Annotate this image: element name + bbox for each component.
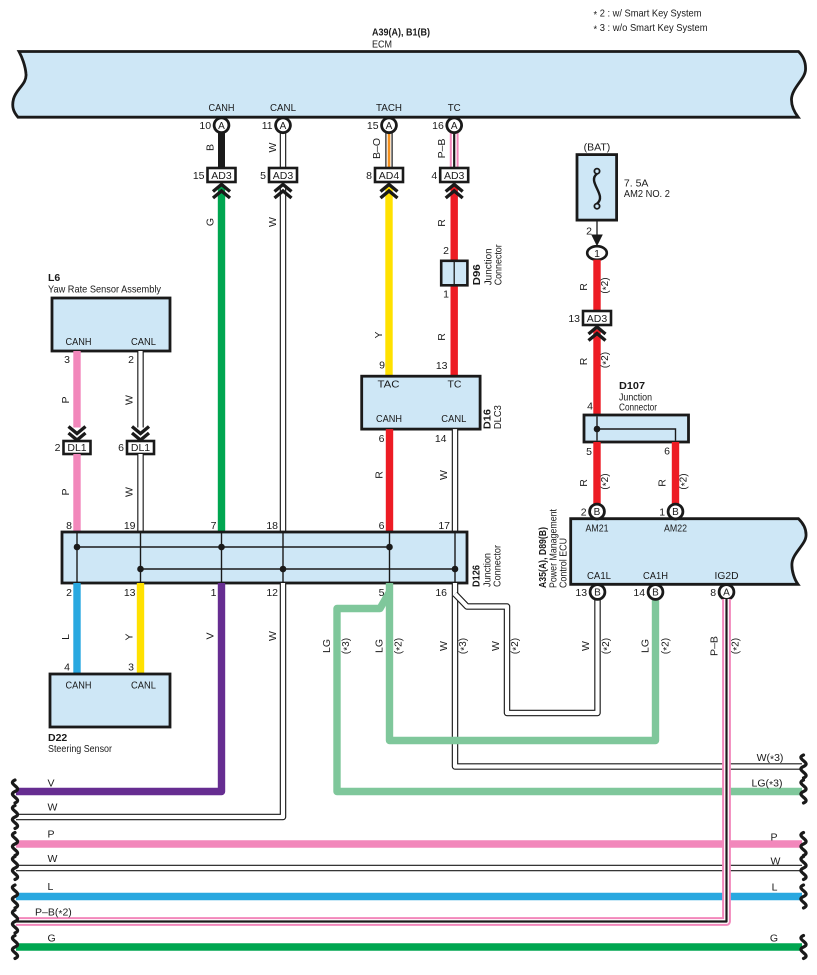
svg-text:A: A <box>723 588 730 599</box>
svg-text:TC: TC <box>448 102 461 114</box>
svg-text:A: A <box>280 121 287 132</box>
svg-text:18: 18 <box>266 520 278 532</box>
svg-text:A39(A), B1(B): A39(A), B1(B) <box>372 27 430 39</box>
svg-text:CANH: CANH <box>376 413 402 425</box>
svg-text:(*2): (*2) <box>731 638 744 654</box>
svg-text:IG2D: IG2D <box>715 570 739 582</box>
svg-text:3: 3 <box>128 662 134 674</box>
svg-text:P: P <box>48 829 55 841</box>
svg-text:R: R <box>578 479 590 487</box>
svg-text:A: A <box>386 121 393 132</box>
svg-text:2: 2 <box>443 245 449 257</box>
svg-text:5: 5 <box>586 446 592 458</box>
svg-text:R: R <box>578 283 590 291</box>
svg-text:LG: LG <box>640 639 652 653</box>
svg-text:G: G <box>770 933 778 945</box>
svg-text:CA1H: CA1H <box>643 570 668 582</box>
svg-text:16: 16 <box>435 587 447 599</box>
svg-text:1: 1 <box>659 506 665 518</box>
svg-text:6: 6 <box>118 442 124 454</box>
svg-text:W: W <box>438 470 450 480</box>
svg-text:R: R <box>657 479 669 487</box>
svg-text:W: W <box>48 853 58 865</box>
svg-text:12: 12 <box>266 587 278 599</box>
svg-text:W: W <box>490 641 502 651</box>
svg-text:TC: TC <box>448 379 462 391</box>
svg-text:14: 14 <box>435 433 447 445</box>
svg-text:4: 4 <box>587 401 593 413</box>
svg-text:13: 13 <box>124 587 136 599</box>
svg-text:L: L <box>60 634 72 640</box>
svg-text:AM22: AM22 <box>664 523 687 535</box>
svg-text:* 3 : w/o Smart Key System: * 3 : w/o Smart Key System <box>594 22 708 36</box>
svg-text:Steering Sensor: Steering Sensor <box>48 743 112 755</box>
svg-text:8: 8 <box>710 587 716 599</box>
svg-text:(*2): (*2) <box>600 277 613 293</box>
svg-text:Control ECU: Control ECU <box>558 538 570 588</box>
svg-text:B: B <box>652 588 659 599</box>
svg-text:8: 8 <box>366 170 372 182</box>
svg-text:W: W <box>438 641 450 651</box>
svg-text:A: A <box>218 121 225 132</box>
svg-text:14: 14 <box>633 587 645 599</box>
svg-text:(*3): (*3) <box>341 638 354 654</box>
svg-text:P–B: P–B <box>709 636 721 656</box>
svg-text:1: 1 <box>594 248 600 260</box>
svg-text:V: V <box>48 778 55 790</box>
svg-text:11: 11 <box>262 120 273 132</box>
svg-text:1: 1 <box>443 289 449 301</box>
svg-text:AD3: AD3 <box>211 170 232 182</box>
svg-text:L6: L6 <box>48 272 60 284</box>
svg-text:W: W <box>124 395 136 405</box>
svg-text:(*2): (*2) <box>600 473 613 489</box>
svg-text:P: P <box>60 488 72 495</box>
svg-text:2: 2 <box>128 354 134 366</box>
svg-text:(*2): (*2) <box>600 352 613 368</box>
svg-text:(*2): (*2) <box>394 638 407 654</box>
svg-text:Connector: Connector <box>493 244 505 285</box>
svg-text:4: 4 <box>431 170 437 182</box>
svg-text:W: W <box>267 631 279 641</box>
svg-text:W: W <box>267 217 279 227</box>
svg-text:Y: Y <box>124 633 136 640</box>
svg-text:R: R <box>578 357 590 365</box>
svg-text:R: R <box>436 333 448 341</box>
svg-text:AM21: AM21 <box>586 523 609 535</box>
svg-text:L: L <box>48 881 54 893</box>
svg-text:16: 16 <box>432 120 444 132</box>
svg-text:D96: D96 <box>471 264 483 285</box>
svg-text:Y: Y <box>373 331 385 338</box>
svg-text:Connector: Connector <box>619 402 657 414</box>
svg-text:LG: LG <box>374 639 386 653</box>
svg-text:B: B <box>672 507 679 518</box>
svg-text:8: 8 <box>66 520 72 532</box>
svg-text:13: 13 <box>436 360 448 372</box>
svg-text:6: 6 <box>379 520 385 532</box>
svg-text:Connector: Connector <box>492 545 504 587</box>
svg-text:W(*3): W(*3) <box>757 752 784 765</box>
svg-text:DLC3: DLC3 <box>492 405 504 429</box>
svg-text:TACH: TACH <box>376 102 402 114</box>
svg-text:9: 9 <box>379 360 385 372</box>
svg-text:DL1: DL1 <box>131 442 150 454</box>
svg-text:AD4: AD4 <box>379 170 400 182</box>
svg-text:R: R <box>374 471 386 479</box>
svg-text:B–O: B–O <box>371 138 383 159</box>
svg-text:AD3: AD3 <box>444 170 465 182</box>
svg-text:W: W <box>124 487 136 497</box>
svg-text:P: P <box>770 832 777 844</box>
svg-text:6: 6 <box>664 446 670 458</box>
svg-text:1: 1 <box>211 587 217 599</box>
svg-text:A: A <box>451 121 458 132</box>
svg-text:15: 15 <box>193 170 205 182</box>
svg-text:2: 2 <box>66 587 72 599</box>
svg-text:19: 19 <box>124 520 136 532</box>
svg-text:* 2 : w/ Smart Key System: * 2 : w/ Smart Key System <box>594 8 702 22</box>
svg-text:B: B <box>594 588 601 599</box>
svg-text:CANL: CANL <box>441 413 466 425</box>
svg-text:CANL: CANL <box>270 102 296 114</box>
svg-text:CANL: CANL <box>131 680 156 692</box>
svg-text:P–B(*2): P–B(*2) <box>35 907 72 920</box>
svg-text:B: B <box>594 507 601 518</box>
svg-text:AM2 NO. 2: AM2 NO. 2 <box>624 188 670 200</box>
svg-text:R: R <box>436 219 448 227</box>
svg-text:W: W <box>267 142 279 152</box>
svg-text:V: V <box>205 632 217 639</box>
svg-text:CANH: CANH <box>209 102 235 114</box>
svg-text:LG(*3): LG(*3) <box>752 778 783 791</box>
svg-text:ECM: ECM <box>372 39 392 51</box>
svg-text:CANH: CANH <box>66 680 92 692</box>
svg-text:(*3): (*3) <box>458 638 471 654</box>
svg-text:AD3: AD3 <box>273 170 294 182</box>
svg-text:P: P <box>60 396 72 403</box>
svg-text:5: 5 <box>260 170 266 182</box>
svg-text:W: W <box>771 856 781 868</box>
svg-text:TAC: TAC <box>378 379 400 391</box>
svg-text:Yaw Rate Sensor Assembly: Yaw Rate Sensor Assembly <box>48 284 162 296</box>
svg-text:17: 17 <box>438 520 450 532</box>
svg-text:7: 7 <box>211 520 217 532</box>
svg-text:2: 2 <box>586 226 592 238</box>
svg-text:(BAT): (BAT) <box>584 142 611 154</box>
svg-text:15: 15 <box>367 120 379 132</box>
svg-text:13: 13 <box>575 587 587 599</box>
svg-text:13: 13 <box>568 313 580 325</box>
svg-text:CANH: CANH <box>66 336 92 348</box>
svg-text:D107: D107 <box>619 380 645 392</box>
svg-text:2: 2 <box>55 442 61 454</box>
svg-text:LG: LG <box>321 639 333 653</box>
svg-text:2: 2 <box>581 506 587 518</box>
svg-text:L: L <box>772 882 778 894</box>
svg-text:(*2): (*2) <box>661 638 674 654</box>
svg-text:B: B <box>205 144 217 151</box>
svg-text:G: G <box>48 933 56 945</box>
svg-text:6: 6 <box>379 433 385 445</box>
svg-text:3: 3 <box>64 354 70 366</box>
svg-text:4: 4 <box>64 662 70 674</box>
svg-text:CA1L: CA1L <box>587 570 611 582</box>
svg-text:(*2): (*2) <box>510 638 523 654</box>
svg-text:P–B: P–B <box>436 139 448 159</box>
svg-text:(*2): (*2) <box>679 473 692 489</box>
svg-text:DL1: DL1 <box>67 442 86 454</box>
svg-text:AD3: AD3 <box>587 313 608 325</box>
svg-text:G: G <box>205 218 217 226</box>
svg-text:CANL: CANL <box>131 336 156 348</box>
svg-text:W: W <box>48 802 58 814</box>
svg-text:(*2): (*2) <box>601 638 614 654</box>
svg-text:10: 10 <box>199 120 211 132</box>
svg-text:W: W <box>580 641 592 651</box>
